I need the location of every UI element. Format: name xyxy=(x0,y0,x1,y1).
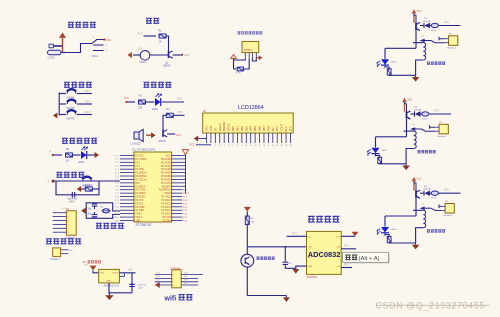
VCC arrow (reg input) xyxy=(90,266,97,271)
resistor R6 (reset pulldown) xyxy=(85,187,92,191)
MCU pin 22 right xyxy=(172,216,183,218)
transistor Q4 (relay 2 driver) xyxy=(407,111,411,119)
MCU pin 5 left xyxy=(120,168,134,170)
MCU pin 21 right xyxy=(172,219,183,221)
svg-text:P1.0: P1.0 xyxy=(344,246,349,248)
title: sound-light alarm block (shengguang baojing) xyxy=(144,82,150,87)
svg-text:RS/CS: RS/CS xyxy=(218,123,222,131)
svg-text:M1: M1 xyxy=(139,48,143,51)
ISP pin 5 xyxy=(53,227,67,229)
wire: left leg down to LED (relay 2) xyxy=(375,137,377,148)
MCU pin 9 left xyxy=(120,182,134,184)
wifi pin right 1 xyxy=(181,274,198,276)
svg-text:P1.7: P1.7 xyxy=(435,111,440,113)
wire: vcc to transistor xyxy=(405,102,407,111)
svg-text:P3.5/T1: P3.5/T1 xyxy=(135,203,144,205)
svg-text:P3.2/INT0: P3.2/INT0 xyxy=(135,193,146,195)
wire arrow to R8 xyxy=(246,212,248,217)
node: fan emitter net xyxy=(181,54,183,56)
svg-text:VIN: VIN xyxy=(84,265,88,267)
wire LED2 to ground xyxy=(88,154,95,156)
relay coil (relay 2) xyxy=(414,131,416,148)
resistor R (relay 1 base) xyxy=(430,25,431,27)
node: indicator left xyxy=(52,154,54,156)
LCD pin 9 xyxy=(241,133,243,143)
svg-text:VCC: VCC xyxy=(106,38,112,42)
svg-text:V0: V0 xyxy=(213,128,217,132)
connector J3 (buzzer) xyxy=(53,248,61,257)
wire: arrow to R6 xyxy=(81,188,85,190)
tooltip overlay: screenshot (Alt + A) xyxy=(343,252,390,263)
VCC arrow down (ADC vcc) xyxy=(352,232,359,237)
wifi pin right 2 xyxy=(181,277,198,279)
node: RST net xyxy=(52,180,55,183)
wire: R6 to right leg xyxy=(92,188,99,190)
label: photo transistor name xyxy=(257,257,260,260)
resistor (relay 1 led) xyxy=(387,69,391,75)
transistor Q5 (relay 3 driver) xyxy=(416,190,420,198)
svg-text:DB0: DB0 xyxy=(231,126,235,132)
svg-text:P3.3: P3.3 xyxy=(178,111,184,114)
MCU pin 40 right xyxy=(172,155,186,157)
speaker LS1 xyxy=(134,129,143,141)
svg-text:R 1K: R 1K xyxy=(432,198,437,200)
wire: left leg down to LED (relay 3) xyxy=(384,216,386,227)
LCD pin 1 xyxy=(206,133,208,143)
svg-text:GND: GND xyxy=(106,281,111,283)
wire: emitter down (relay 1) xyxy=(415,31,417,49)
resistor R (relay 2 base) xyxy=(421,113,422,115)
svg-text:GND: GND xyxy=(308,266,313,268)
ground arrow (relay 1) xyxy=(412,77,420,82)
wire: left leg top (relay 1) xyxy=(385,47,416,49)
resistor R5 (power led) xyxy=(66,153,73,157)
wire: motor left to VCC arrow xyxy=(133,54,140,56)
wire: to base resistor xyxy=(144,35,157,37)
svg-text:VIN: VIN xyxy=(100,272,104,274)
wifi pin left 2 xyxy=(155,277,172,279)
MCU pin 33 right xyxy=(172,178,186,180)
transistor Q2 S8550 (buzzer driver) xyxy=(163,130,167,137)
wire: R8 down to junction and phototransistor xyxy=(246,225,248,255)
svg-text:PSEN: PSEN xyxy=(183,193,189,195)
svg-text:3: 3 xyxy=(173,282,174,284)
svg-text:BLK: BLK xyxy=(288,126,292,131)
MCU pin 12 left xyxy=(120,192,134,194)
wire: base drive net (relay 1) xyxy=(438,25,460,27)
wire: coil bottom to left then down (relay 3) xyxy=(416,228,424,243)
wire: cap to gnd rail xyxy=(285,264,296,268)
node: alarm LED left xyxy=(125,101,127,103)
wire: R4 to Q2 base xyxy=(163,115,166,130)
svg-text:VCC: VCC xyxy=(176,133,182,137)
title: humidity sensor block xyxy=(238,32,241,34)
svg-text:LED2: LED2 xyxy=(78,161,85,164)
LCD pin 3 xyxy=(214,133,216,143)
title: power indicator block (dianyuan zhishideng) xyxy=(62,138,68,143)
svg-text:P0.0/AD0: P0.0/AD0 xyxy=(161,158,172,161)
svg-text:VSS: VSS xyxy=(205,126,209,132)
svg-text:VOUT: VOUT xyxy=(280,123,284,131)
wire: crystal loop xyxy=(86,203,120,219)
wire: resistor to transistor base xyxy=(166,36,169,51)
LCD pin 20 xyxy=(289,133,291,143)
ground arrow (speaker to transistor) xyxy=(146,132,155,138)
wire: ADC CS pin xyxy=(287,235,307,237)
svg-text:4.7K: 4.7K xyxy=(236,73,241,75)
svg-text:DB7: DB7 xyxy=(262,126,266,132)
MCU pin 19 left xyxy=(120,216,134,218)
VCC arrow (power supply) xyxy=(59,33,66,53)
svg-text:1K: 1K xyxy=(66,160,69,163)
svg-text:E/CLK: E/CLK xyxy=(227,123,231,131)
MCU pin 8 left xyxy=(120,178,134,180)
wire: LCD pin2 to VCC xyxy=(196,144,211,146)
ISP pin 2 xyxy=(53,216,67,218)
svg-text:P2.5/A13: P2.5/A13 xyxy=(161,202,171,205)
svg-text:P0.3/AD3: P0.3/AD3 xyxy=(161,168,172,171)
wire: bottom rail (relay 1) xyxy=(389,74,415,76)
ground arrow (crystal) xyxy=(81,208,86,214)
svg-text:AMS1117-5.0: AMS1117-5.0 xyxy=(104,284,120,288)
svg-text:CON2: CON2 xyxy=(48,56,56,60)
svg-text:P2.3/A11: P2.3/A11 xyxy=(161,209,171,212)
LCD pin 7 xyxy=(232,133,234,143)
svg-text:ADC0832: ADC0832 xyxy=(307,276,318,279)
svg-text:S8050: S8050 xyxy=(163,65,171,68)
svg-text:RST: RST xyxy=(275,126,279,132)
wire: ADC DO pin right xyxy=(341,267,352,269)
relay coil (relay 3) xyxy=(423,210,425,227)
MCU pin 30 right xyxy=(172,189,183,191)
svg-text:LCD12864: LCD12864 xyxy=(238,105,264,111)
ground arrow (ADC gnd) xyxy=(292,269,299,274)
svg-text:P3.4/T0: P3.4/T0 xyxy=(135,200,144,202)
wire: left leg down to LED (relay 1) xyxy=(384,48,386,59)
resistor (relay 3 led) xyxy=(387,236,391,242)
relay coil (relay 1) xyxy=(423,43,425,60)
svg-text:3.3V: 3.3V xyxy=(184,272,189,274)
IC U3 ADC0832 xyxy=(307,231,342,274)
svg-text:P1.5: P1.5 xyxy=(85,111,91,114)
label: relay name (relay 3) xyxy=(427,230,430,233)
title: key-input block (anjian shuru) xyxy=(64,82,70,87)
connector J3 (relay output) xyxy=(445,204,454,214)
svg-text:Header 2: Header 2 xyxy=(51,258,61,261)
MCU pin 14 left xyxy=(120,199,134,201)
title: light acquisition block (guangdu caiji) xyxy=(308,216,315,222)
svg-text:VDD: VDD xyxy=(209,126,213,132)
DHT11 pins xyxy=(244,53,246,59)
wire: gnd pin down + bottom rail xyxy=(109,283,132,293)
svg-text:P2.7/A15: P2.7/A15 xyxy=(161,196,171,199)
wire: bottom rail (relay 2) xyxy=(380,163,406,165)
MCU pin 34 right xyxy=(172,175,186,177)
MCU pin 39 right xyxy=(172,158,186,160)
wire: junction to ADC CH0 xyxy=(247,246,306,248)
wire to R5 xyxy=(54,154,63,156)
wifi pin left 3 xyxy=(155,281,172,283)
wire: base drive net (relay 3) xyxy=(438,192,460,194)
MCU pin 6 left xyxy=(120,172,134,174)
MCU pin 38 right xyxy=(172,161,186,163)
svg-text:CH1: CH1 xyxy=(308,257,313,259)
resistor R4 (buzzer base) xyxy=(166,113,173,117)
ISP pin 1 xyxy=(53,212,67,214)
title: program download port block xyxy=(46,239,52,244)
svg-text:R6 10K: R6 10K xyxy=(85,184,93,187)
svg-text:(Alt + A): (Alt + A) xyxy=(359,256,380,262)
VCC arrow right (dht) xyxy=(256,55,263,60)
svg-text:DHT11: DHT11 xyxy=(244,49,252,52)
IC U4 AMS1117 regulator xyxy=(99,269,120,283)
svg-text:VCC: VCC xyxy=(417,11,422,13)
MCU pin 17 left xyxy=(120,209,134,211)
switch SW1 3-pin xyxy=(92,40,104,51)
svg-text:P1.3: P1.3 xyxy=(135,166,140,168)
connector J1 (relay output) xyxy=(449,36,458,46)
svg-text:P3.6/WR: P3.6/WR xyxy=(135,207,145,209)
svg-text:DB6: DB6 xyxy=(258,126,262,132)
wire: emitter down (relay 2) xyxy=(406,119,408,137)
relay contact arm (relay 3) xyxy=(420,205,442,211)
MCU pin 13 left xyxy=(120,196,134,198)
wire: emitter rail to coil top (relay 1) xyxy=(413,42,423,44)
svg-text:wifi: wifi xyxy=(164,296,177,303)
svg-text:TXD: TXD xyxy=(156,272,161,274)
VCC hollow arrow to MCU pin 40 xyxy=(182,150,188,155)
LED D2 power indicator xyxy=(81,147,88,159)
title: fan block (fengshan) xyxy=(146,18,152,23)
motor M1 (fan) xyxy=(140,51,150,61)
LCD pin 11 xyxy=(250,133,252,143)
svg-text:VCC: VCC xyxy=(124,98,129,100)
wire R5 to LED2 xyxy=(73,154,81,156)
svg-text:STC89C52: STC89C52 xyxy=(136,223,152,227)
wire: vin to box xyxy=(93,270,99,273)
svg-text:Header 2: Header 2 xyxy=(438,135,448,138)
svg-text:P1.5/MOSI: P1.5/MOSI xyxy=(135,173,147,175)
ground arrow (power led) xyxy=(95,152,99,158)
wire: LED to net P3.2 xyxy=(162,101,185,103)
svg-text:S8550: S8550 xyxy=(159,140,167,143)
wire: phototransistor emitter down xyxy=(247,267,286,295)
wire: vout down rail xyxy=(131,273,133,293)
svg-text:P0.5/AD5: P0.5/AD5 xyxy=(161,175,172,178)
svg-text:P1.4: P1.4 xyxy=(85,101,91,104)
svg-text:P0.4/AD4: P0.4/AD4 xyxy=(161,172,172,175)
wire: wifi 3.3V extend xyxy=(198,274,203,276)
svg-text:10uF: 10uF xyxy=(138,287,144,289)
ground arrow (reset) xyxy=(77,186,81,192)
svg-text:220: 220 xyxy=(138,107,143,110)
MCU pin 37 right xyxy=(172,165,186,167)
svg-text:P2.4/A12: P2.4/A12 xyxy=(161,206,171,209)
svg-text:P1.3: P1.3 xyxy=(85,90,91,93)
VCC arrow (relay 1) xyxy=(412,9,417,23)
IC U2 DHT11 xyxy=(242,42,259,53)
ground arrow (keys common) xyxy=(53,113,57,119)
svg-text:BLA: BLA xyxy=(284,126,288,131)
resistor R3 (alarm led) xyxy=(139,100,146,104)
push button S4 (reset) xyxy=(82,177,91,181)
svg-text:1N4148: 1N4148 xyxy=(423,21,431,23)
resistor R2 (fan base) xyxy=(159,34,166,38)
capacitor C1 30pF xyxy=(92,204,98,206)
svg-text:DB4: DB4 xyxy=(249,126,253,132)
svg-text:VCC: VCC xyxy=(189,143,195,147)
wire c1 xyxy=(94,203,96,204)
MCU pin 23 right xyxy=(172,213,183,215)
wire: emitter to node xyxy=(173,54,181,56)
title: crystal block (jingzhen dianlu) xyxy=(96,223,102,228)
svg-text:CS: CS xyxy=(308,237,312,239)
svg-text:Cap Pol: Cap Pol xyxy=(138,285,146,287)
svg-text:1N4148: 1N4148 xyxy=(423,189,431,191)
svg-text:ADC0832: ADC0832 xyxy=(308,250,341,259)
resistor R (relay 3 base) xyxy=(430,192,431,194)
MCU pin 20 left xyxy=(120,219,134,221)
svg-text:P0.6/AD6: P0.6/AD6 xyxy=(161,178,172,181)
svg-text:1: 1 xyxy=(173,275,174,277)
svg-text:P1.6/MISO: P1.6/MISO xyxy=(135,176,147,178)
wires: dht pull-up network xyxy=(233,58,235,69)
wire: jack to switch xyxy=(61,44,92,53)
transistor Q1 S8050 (fan driver) xyxy=(169,51,173,58)
MCU pin 2 left xyxy=(120,158,134,160)
svg-text:R 1K: R 1K xyxy=(432,30,437,32)
svg-text:DB3: DB3 xyxy=(244,126,248,132)
svg-text:VOUT: VOUT xyxy=(112,272,119,274)
push button S3 xyxy=(59,114,66,116)
phototransistor Q6 xyxy=(241,254,254,267)
MCU pin 16 left xyxy=(120,206,134,208)
ground arrow (relay 2) xyxy=(402,166,410,171)
wire: base drive net (relay 2) xyxy=(429,113,451,115)
wire: bottom rail (relay 3) xyxy=(389,242,415,244)
VCC arrow (relay 3) xyxy=(412,177,417,191)
svg-text:ALE/PROG: ALE/PROG xyxy=(159,189,171,192)
svg-text:Header 2: Header 2 xyxy=(447,47,457,50)
svg-text:P2.2/A10: P2.2/A10 xyxy=(161,213,171,216)
wire: RST top rail xyxy=(55,180,121,182)
ground arrow (photo emitter) xyxy=(283,297,290,302)
svg-text:P0.2/AD2: P0.2/AD2 xyxy=(161,165,172,168)
resistor R7 4.7K xyxy=(237,67,244,71)
resistor (relay 2 led) xyxy=(378,157,382,163)
node: VCC net on switch pin 1 xyxy=(103,38,105,40)
MCU pin 26 right xyxy=(172,202,183,204)
diode D (relay 3) xyxy=(420,192,424,194)
svg-text:SW-PB: SW-PB xyxy=(67,118,75,121)
wire: motor to transistor xyxy=(150,54,169,56)
LED (relay 2 indicator) xyxy=(367,148,379,156)
svg-text:VCC: VCC xyxy=(407,100,412,102)
MCU pin 27 right xyxy=(172,199,183,201)
svg-text:RST: RST xyxy=(135,183,140,185)
svg-text:VCC: VCC xyxy=(166,156,171,158)
MCU pin 36 right xyxy=(172,168,186,170)
wire: R4 to net xyxy=(173,114,184,116)
wires: r7 to data pin xyxy=(244,58,250,69)
LCD pin 19 xyxy=(285,133,287,143)
wire: ADC VCC pin right xyxy=(341,235,355,237)
svg-text:P1.0/T2: P1.0/T2 xyxy=(135,156,144,158)
svg-text:XTAL1: XTAL1 xyxy=(113,216,120,219)
ground arrow (relay 3) xyxy=(412,245,420,250)
LCD pin 10 xyxy=(245,133,247,143)
svg-text:1K: 1K xyxy=(159,41,162,44)
wifi pin right 3 xyxy=(181,281,198,283)
svg-text:P0.7/AD7: P0.7/AD7 xyxy=(161,182,172,185)
title: power-supply block (dianyuan gongdian) xyxy=(68,22,74,27)
svg-text:XTAL1: XTAL1 xyxy=(135,216,143,219)
svg-text:DB2: DB2 xyxy=(240,126,244,132)
label: relay name (relay 2) xyxy=(418,150,421,153)
LCD pin 15 xyxy=(267,133,269,143)
LCD pin 2 xyxy=(210,133,212,143)
MCU pin 25 right xyxy=(172,206,183,208)
label: relay name (relay 1) xyxy=(427,62,430,65)
MCU pin 4 left xyxy=(120,165,134,167)
svg-text:LED4: LED4 xyxy=(382,150,388,152)
svg-text:Motor: Motor xyxy=(140,61,147,64)
wire: emitter down (relay 3) xyxy=(415,198,417,216)
svg-text:P1.4/SS: P1.4/SS xyxy=(135,169,144,171)
LCD pin 4 xyxy=(219,133,221,143)
connector J2 (relay output) xyxy=(439,124,448,134)
VCC arrow (relay 2) xyxy=(402,98,407,112)
MCU pin 3 left xyxy=(120,161,134,163)
svg-text:R 1K: R 1K xyxy=(422,118,427,120)
LCD pin 18 xyxy=(281,133,283,143)
wire R3 to LED xyxy=(146,101,155,103)
svg-text:1N4148: 1N4148 xyxy=(414,109,422,111)
svg-text:10uF: 10uF xyxy=(69,201,75,204)
LED (relay 1 indicator) xyxy=(377,59,389,67)
svg-text:LED1: LED1 xyxy=(152,108,159,111)
svg-text:2: 2 xyxy=(173,278,174,280)
svg-text:P1.7/SCLK: P1.7/SCLK xyxy=(135,179,147,181)
svg-text:P3.2: P3.2 xyxy=(177,98,183,101)
svg-text:LED3: LED3 xyxy=(391,62,397,64)
svg-text:VCC: VCC xyxy=(62,208,67,210)
svg-text:P3.0/RXD: P3.0/RXD xyxy=(135,186,146,188)
wire: coil bottom to left then down (relay 2) xyxy=(406,149,414,164)
capacitor C4 (filter) xyxy=(283,262,289,264)
wifi pin left 4 xyxy=(155,284,172,286)
LED (relay 3 indicator) xyxy=(377,227,389,235)
relay contact arm (relay 2) xyxy=(410,125,435,131)
ground arrow (wifi) xyxy=(155,282,159,288)
VCC arrow down (photo divider) xyxy=(244,207,251,212)
push button S1 xyxy=(59,93,66,95)
LCD pin 14 xyxy=(263,133,265,143)
svg-text:GND: GND xyxy=(184,54,190,57)
svg-text:VCC: VCC xyxy=(417,179,422,181)
wire: emitter rail to coil top (relay 3) xyxy=(413,209,423,211)
wire: LED to resistor (relay 2) xyxy=(376,154,380,157)
svg-text:P1.8: P1.8 xyxy=(444,190,449,192)
diode D (relay 1) xyxy=(420,25,424,27)
transistor Q3 (relay 1 driver) xyxy=(416,22,420,30)
svg-text:XTAL2: XTAL2 xyxy=(135,213,143,216)
wire: ADC GND pin xyxy=(296,266,307,269)
wifi pin right 4 xyxy=(181,284,198,286)
wire: arrow stem junction xyxy=(63,52,67,54)
svg-text:XTAL2: XTAL2 xyxy=(113,212,120,215)
svg-text:RW/SID: RW/SID xyxy=(222,122,226,132)
